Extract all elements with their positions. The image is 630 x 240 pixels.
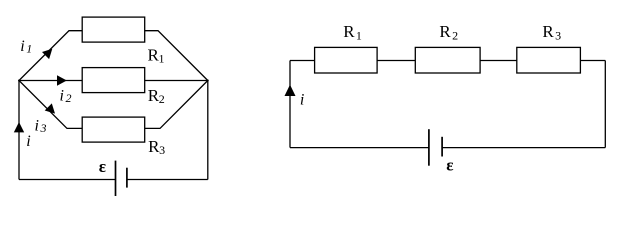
- wire: top segment between R1 and R2 (right circuit): [377, 60, 415, 62]
- svg-text:i: i: [20, 38, 24, 55]
- svg-text:2: 2: [159, 92, 165, 106]
- svg-text:i: i: [35, 117, 39, 134]
- svg-text:2: 2: [66, 91, 72, 105]
- svg-text:3: 3: [40, 121, 47, 135]
- arrowhead: current i2 on branch 2: [57, 75, 67, 86]
- resistor R3 (left circuit): [82, 117, 145, 142]
- svg-text:ε: ε: [99, 157, 106, 176]
- arrowhead: current i on left vertical wire (left circuit): [14, 122, 24, 132]
- svg-text:i: i: [60, 87, 64, 104]
- wire: top segment from R3 to right corner (right circuit): [580, 60, 605, 62]
- svg-text:1: 1: [159, 51, 165, 65]
- wire: bottom segment from right corner to battery short plate: [442, 147, 605, 149]
- svg-text:i: i: [26, 133, 30, 150]
- svg-text:ε: ε: [446, 155, 453, 174]
- node A (left junction of parallel branches): [18, 80, 20, 82]
- wire: branch 1 diagonal + stub from node A to resistor R1: [19, 31, 82, 81]
- arrowhead: current i1 on branch 1: [42, 49, 52, 59]
- svg-text:i: i: [300, 92, 304, 109]
- wire: top segment between R2 and R3 (right circuit): [480, 60, 517, 62]
- wire: bottom-right segment from battery to bottom-right corner: [127, 179, 208, 181]
- wire: left vertical from node A to bottom-left corner: [18, 81, 20, 180]
- svg-text:3: 3: [555, 29, 561, 43]
- node B (right junction of parallel branches): [207, 80, 209, 82]
- wire: branch 2 horizontal from node A to resistor R2: [19, 80, 82, 82]
- wire: left vertical of series loop (right circuit): [289, 61, 291, 148]
- resistor R2 (right circuit): [415, 47, 480, 73]
- battery EMF source (right circuit) short plate: [441, 137, 443, 157]
- svg-text:3: 3: [159, 143, 165, 157]
- wire: right vertical from node B to bottom-right corner: [207, 81, 209, 180]
- wire: top segment from left corner to resistor R1 (right circuit): [290, 60, 315, 62]
- svg-text:1: 1: [26, 42, 32, 56]
- wire: stub + diagonal from resistor R3 to node B: [145, 81, 208, 129]
- resistor R1 (right circuit): [315, 47, 378, 73]
- battery EMF source (left circuit) long plate: [115, 161, 117, 196]
- svg-text:R: R: [439, 22, 451, 41]
- arrowhead: current i3 on branch 3: [45, 103, 55, 113]
- wire: bottom segment from battery long plate to left corner: [290, 147, 429, 149]
- wire: stub + diagonal from resistor R1 to node B: [145, 31, 208, 81]
- svg-text:1: 1: [356, 29, 362, 43]
- wire: horizontal from resistor R2 to node B: [145, 80, 208, 82]
- svg-text:R: R: [343, 22, 355, 41]
- wire: right vertical of series loop (right circuit): [604, 61, 606, 148]
- arrowhead: current i on left wire (right circuit): [285, 85, 296, 96]
- svg-text:2: 2: [452, 29, 458, 43]
- wire: branch 3 diagonal + stub from node A to resistor R3: [19, 81, 82, 129]
- battery EMF source (left circuit) short plate: [126, 168, 128, 188]
- resistor R1 (left circuit): [82, 17, 145, 42]
- svg-text:R: R: [542, 22, 554, 41]
- battery EMF source (right circuit) long plate: [428, 129, 430, 166]
- resistor R2 (left circuit): [82, 68, 145, 93]
- resistor R3 (right circuit): [517, 47, 581, 73]
- wire: bottom-left segment to battery long plate: [19, 179, 116, 181]
